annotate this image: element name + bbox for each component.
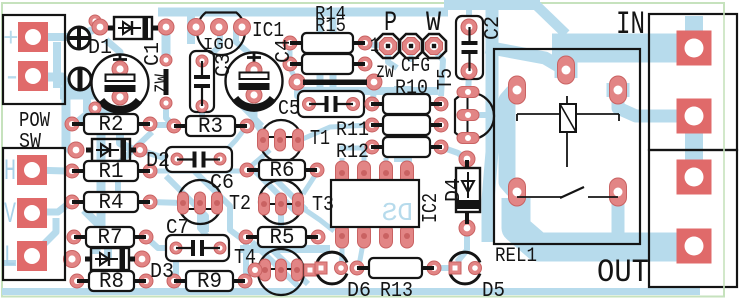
wire L pad stub to edge [4,260,16,266]
wire diagonal under T2 [118,132,152,198]
svg-text:T5: T5 [435,68,458,90]
header CFG body [376,34,400,58]
capacitor C1 body [92,55,149,112]
wire + terminal to D1 [33,28,97,37]
connector H/V/L outline [3,148,65,280]
transistor T5 pads [457,87,479,98]
wire diagonal T3 area 2 [262,166,306,210]
svg-text:IGO: IGO [203,36,234,55]
connector OUT outline [649,150,737,287]
capacitor C7 pads [170,242,182,254]
diode D6 pads [315,262,327,274]
svg-text:R6: R6 [270,158,295,183]
capacitor C5 body [298,91,364,117]
pad POW + [18,22,48,52]
pad via below C1 [89,102,101,114]
svg-text:D1: D1 [88,37,112,60]
svg-text:T1: T1 [310,128,330,151]
wire R13 to D5 [434,265,452,271]
relay coil [560,104,576,132]
wire IC2 pin5 up [405,158,410,172]
svg-text:DS: DS [382,198,413,228]
wire IN feed band [552,34,690,63]
transistor T4 pads [260,259,271,281]
svg-text:R1: R1 [99,159,124,184]
wire blob at relay NO pad [607,83,630,97]
svg-text:D5: D5 [482,280,505,298]
wire R14 left pad down [288,47,293,60]
svg-text:D3: D3 [150,261,174,284]
wire R6 to T1 diagonal [250,150,270,167]
svg-text:R10: R10 [395,77,428,100]
IC2 pads [336,161,349,185]
wire H pad to R1 [32,170,66,171]
wire IN lower pad to OUT upper pad [685,122,703,172]
jumper Zw2 [303,80,367,86]
resistor R10 pads [365,97,379,111]
transistor T2 outline [178,180,222,224]
diode D5 pads [449,262,461,274]
resistor R15 pads [283,57,297,71]
resistor R15 [290,62,305,66]
relay contact common line [517,113,560,115]
resistor R12 [371,145,386,149]
svg-text:R7: R7 [98,225,123,250]
svg-text:POW: POW [19,110,50,133]
wire T3 to IC2 [298,205,334,231]
svg-text:C5: C5 [278,98,300,121]
svg-text:zw: zw [150,74,173,93]
resistor R2 pads [65,117,79,131]
svg-text:T4: T4 [234,247,256,270]
wire diagonal T2 area 2 [185,162,246,242]
wire blob at relay coil pad [555,54,578,78]
capacitor C2 pads [461,19,477,35]
wire CFG pin2 down [409,50,414,62]
wire R14 to CFG pin1 [365,44,384,46]
wire vertical right of CFG [488,6,492,242]
wire diagonal T3 area 1 [250,166,296,212]
transistor T4 outline [258,249,304,295]
pad IN 2 [677,99,712,134]
svg-text:D4: D4 [443,178,466,202]
svg-text:P: P [384,8,397,39]
resistor R13 pads [350,261,364,275]
wire CFG pin1 down [388,52,397,68]
jumper Zw2 pads [289,74,305,90]
wire - terminal [33,77,74,153]
svg-text:C3: C3 [213,53,236,77]
wire diagonal T2 area 1 [166,176,206,232]
connector IN outline [649,14,737,150]
svg-text:W: W [426,8,441,39]
svg-text:R3: R3 [198,114,223,139]
transistor T3 outline [259,180,303,224]
svg-text:C1: C1 [142,42,165,66]
transistor T1 pads [258,129,269,151]
wire D2 to C6 [140,150,175,158]
wire R5 pad to ground band [243,242,249,288]
wire top supply band [158,8,448,17]
resistor R14 pads [283,36,297,50]
svg-text:R12: R12 [336,141,369,164]
resistor R6 [247,168,262,172]
regulator IC1 pads [188,19,205,36]
resistor R9 pads [167,274,181,288]
svg-text:OUT: OUT [597,254,649,291]
wire R12 left stub [340,146,372,151]
svg-text:IC2: IC2 [420,193,443,223]
resistor R11 pads [365,118,379,132]
wire diagonal T4 area 2 [264,242,308,284]
wire IC2 pin8 up [340,158,345,172]
wire relay coil feed [486,47,562,68]
wire blob below minus pad [60,87,98,100]
pad H [17,155,47,185]
svg-text:CFG: CFG [401,55,430,78]
svg-text:T3: T3 [312,194,334,217]
svg-text:+: + [3,24,19,54]
resistor R8 [77,279,92,283]
svg-text:R2: R2 [99,112,124,137]
wire R6 to T3 diagonal [303,174,316,194]
capacitor C6 body [166,147,232,172]
wire thin vertical under R10-R12 [421,88,427,152]
pad V [17,198,47,228]
wire IC2 pin7 up [362,150,367,172]
wire C2 top to band [466,10,472,25]
diode D3 [85,257,91,262]
pad POW - [18,61,48,91]
resistor R4 [72,200,87,204]
resistor R1 [72,169,87,173]
wire Zw2 to R10 [373,84,374,102]
capacitor C6 [177,158,194,160]
capacitor C7 [176,247,193,249]
header CFG outline [376,34,400,58]
wire IC1 G to C3 [208,27,220,57]
diode D1 [108,26,114,31]
resistor R4 pads [65,195,79,209]
header CFG pads [380,38,397,55]
transistor T3 pads [259,193,270,215]
svg-text:REL1: REL1 [495,245,537,268]
polarity pad minus [69,68,91,90]
capacitor C5 [309,103,326,105]
resistor R14 [290,41,305,45]
capacitor C3 pads [196,55,208,67]
transistor T5 outline [455,93,494,139]
capacitor C4 symbol [240,73,269,80]
capacitor C2 [468,27,470,43]
wire IC2 pin6 up [384,158,389,172]
pad L [17,241,47,271]
wire C4 to T1 [254,99,263,133]
svg-text:H: H [4,155,16,189]
svg-text:R4: R4 [99,190,124,215]
capacitor C1 symbol [106,75,135,82]
transistor T2 pads [178,192,189,214]
resistor R2 [72,122,87,126]
resistor R5 pads [239,230,253,244]
wire R1 to R6 [150,169,240,174]
pad right of T4 [304,264,316,276]
svg-text:R13: R13 [380,280,413,298]
wire C3 bottom to R3 [199,108,205,118]
svg-text:D6: D6 [347,280,371,298]
svg-text:T2: T2 [229,193,251,216]
wire T4 right stub [303,268,315,273]
svg-text:C6: C6 [210,172,234,195]
resistor R5 [246,235,261,239]
wire wide vertical under R10-R12 [394,86,412,162]
resistor R7 [74,235,89,239]
svg-text:C4: C4 [273,39,296,63]
wire IC2 pin2 to R13 [358,238,364,266]
wire R7 to C7 [146,237,172,248]
wire T5 mid stub [475,112,490,118]
pad via near D1 [89,15,101,27]
wire relay NC pad down to band [612,196,625,238]
resistor R12 pads [365,140,379,154]
resistor R11 [371,123,386,127]
wire C2 to T5 [468,73,469,95]
wire Zw1 to R3 [166,102,174,126]
relay REL1 pads [509,76,526,104]
svg-text:V: V [4,198,16,232]
wire C1 top pad to D1 [106,40,120,63]
wire C5 to R10 [353,102,370,107]
board outline right edge over connectors [723,3,725,296]
resistor R9 [174,279,189,283]
regulator IC1 outline [197,13,245,55]
wire relay bottom band to OUT [516,198,686,247]
pad OUT 2 [677,229,712,264]
wire diagonal to IN band [536,5,566,34]
relay REL1 outline [494,49,640,244]
wire CFG pin3 to R10 [434,50,443,96]
capacitor C1 pads [112,61,128,77]
wire relay left vertical [507,92,514,190]
wire R8 to ground band [143,281,149,290]
wire top band stub at C3 [187,16,195,44]
jumper Zw1 pads [160,54,172,66]
capacitor C4 pads [246,62,262,78]
capacitor C4 body [226,53,283,110]
pad IN 1 [677,31,712,66]
svg-text:zw: zw [376,61,394,84]
svg-text:R5: R5 [270,225,295,250]
wire R2 to R3 [150,122,174,128]
wire bottom ground band [2,288,700,295]
wire V pad to R4 [32,204,68,212]
svg-text:R8: R8 [99,269,124,294]
diode D3 pads [64,251,81,268]
connector IN body [649,14,737,150]
capacitor C5 pads [303,98,316,111]
wire R9 to ground band [242,281,248,290]
resistor R10 [371,102,386,106]
capacitor C2 body [456,16,483,79]
capacitor C3 [201,61,203,77]
diode D2 pads [68,142,84,158]
wire above IN upper pad [685,16,703,36]
wire horizontal below C1 [78,112,120,122]
diode D4 [465,160,469,168]
resistor R3 [174,124,189,128]
wire T3 to T4 vertical [278,212,284,248]
diode D1 pads [92,19,108,35]
transistor T1 outline [260,120,302,162]
wire T2 to C7 [200,211,211,241]
capacitor C7 body [166,235,229,261]
wire vertical under R15 [330,14,337,88]
wire IC1 O down [236,27,250,54]
diode D5 outline [450,252,480,284]
wire D4 to D5 [457,230,467,262]
svg-text:-: - [3,61,21,95]
IC IC2 body [331,180,419,227]
connector POW/SW outline [3,15,65,104]
wire diagonal under C4 [232,96,262,126]
wire main left vertical [96,104,101,254]
pad OUT 1 [677,160,712,195]
wire IC2 pin1 to D6 [341,238,342,264]
svg-text:R11: R11 [336,119,369,142]
wire diagonal T4 area 1 [252,242,298,286]
svg-text:R15: R15 [315,15,346,37]
wire R12 to D4 [441,147,467,160]
relay switch [517,196,562,198]
wire T1 to R11 [298,125,370,141]
wire IC1 I pad stub [192,26,203,31]
wire R15 left pad to Zw2 [290,68,295,78]
svg-text:1: 1 [370,35,379,58]
jumper Zw1 [164,69,169,95]
wire L pad up [44,218,56,244]
wire C1 negative down to D2 [120,98,139,150]
resistor R13 [357,266,372,270]
wire V to T2 diagonal [84,210,108,258]
wire D1 pad to jumper Zw1 [162,28,171,60]
connector OUT body [649,150,737,287]
svg-text:C2: C2 [482,16,505,40]
wire stub above R2 pad [83,90,91,112]
diode D6 outline [317,252,347,284]
svg-text:IN: IN [616,6,645,43]
svg-text:L: L [4,241,16,275]
resistor R3 pads [167,119,181,133]
wire top band right segment [444,0,540,10]
resistor R6 pads [240,163,254,177]
pad left of T4 [248,263,262,277]
capacitor C6 pads [171,153,183,165]
svg-text:R9: R9 [197,269,222,294]
resistor R1 pads [65,164,79,178]
wire vertical under R14 [317,14,324,88]
connector H/V/L body [3,148,65,280]
wire Zw2 to C5 [297,84,305,102]
diode D4 pads [459,151,475,167]
wire under R5 [240,245,330,253]
wire relay NO contact to IN lower pad [618,94,680,116]
polarity pad plus [68,27,90,49]
wire C6 to R3 diagonal [220,131,243,157]
connector POW/SW body [3,15,65,104]
svg-text:SW: SW [19,131,41,154]
wire vertical by power input [53,42,61,88]
diode D2 [86,148,92,153]
wire R4 to T2 [150,202,183,203]
resistor R7 pads [67,230,81,244]
resistor R8 pads [70,274,84,288]
svg-text:C7: C7 [166,217,189,240]
capacitor C3 body [190,51,214,112]
wire band under R10 label [300,87,438,95]
IC2 lower pads [336,224,349,248]
wire C7 pad down [173,252,179,288]
relay actuator line [566,132,568,167]
